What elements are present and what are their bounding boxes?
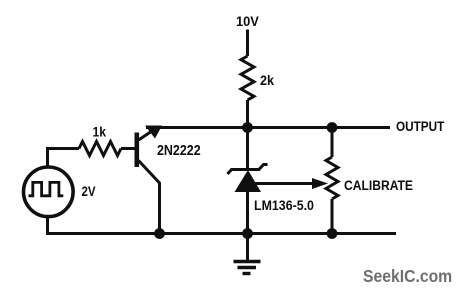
- zener reference U1 LM136-5.0: [228, 165, 268, 193]
- svg-text:2N2222: 2N2222: [157, 142, 201, 158]
- potentiometer R3 CALIBRATE: [326, 157, 338, 199]
- svg-text:2V: 2V: [82, 183, 96, 199]
- value label 1k: [93, 124, 107, 140]
- svg-text:1k: 1k: [93, 124, 107, 140]
- resistor R2 2k: [241, 56, 254, 100]
- node junction top right: [327, 122, 338, 133]
- wire source top to resistor 1k: [48, 149, 80, 168]
- label OUTPUT: [396, 118, 444, 134]
- wire rail to potentiometer top: [331, 128, 334, 158]
- node junction bottom left: [154, 228, 165, 239]
- wire top rail: [146, 126, 390, 129]
- wire bottom rail: [48, 216, 397, 234]
- svg-text:10V: 10V: [236, 14, 259, 30]
- wire resistor to base: [121, 147, 135, 150]
- wire zener anode to bottom rail: [246, 191, 249, 234]
- svg-text:SeekIC.com: SeekIC.com: [363, 266, 452, 286]
- label 10V supply: [236, 14, 259, 30]
- value label 2V: [82, 183, 96, 199]
- wire 10V to resistor 2k: [246, 30, 249, 57]
- transistor Q1 2N2222: [135, 126, 163, 234]
- svg-text:2k: 2k: [260, 72, 275, 88]
- svg-text:CALIBRATE: CALIBRATE: [344, 177, 413, 193]
- label LM136-5.0: [254, 197, 314, 213]
- node junction bottom right: [327, 228, 338, 239]
- ground: [234, 234, 261, 274]
- node junction top left: [242, 122, 253, 133]
- svg-text:LM136-5.0: LM136-5.0: [254, 197, 314, 213]
- watermark SeekIC.com: [363, 266, 452, 286]
- svg-text:OUTPUT: OUTPUT: [396, 118, 444, 134]
- wiper arrow to potentiometer: [252, 178, 328, 189]
- node junction bottom middle: [242, 228, 253, 239]
- wire 2k to top rail: [246, 100, 249, 128]
- voltage source V1 2V square wave: [24, 167, 74, 217]
- label CALIBRATE: [344, 177, 413, 193]
- value label 2k: [260, 72, 275, 88]
- resistor R1 1k: [79, 142, 121, 156]
- wire potentiometer bottom to rail: [331, 199, 334, 234]
- wire rail to zener cathode: [246, 128, 249, 169]
- label 2N2222: [157, 142, 201, 158]
